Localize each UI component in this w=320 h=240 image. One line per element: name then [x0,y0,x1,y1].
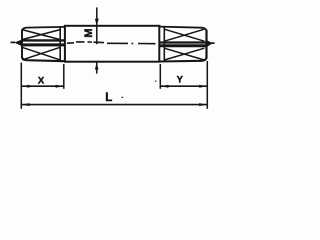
right knurl lower taper line with axis [160,44,206,47]
arrowhead L right [199,103,207,106]
right knurl inner shoulder line [163,27,165,61]
left knurl lower cross flats [22,47,60,60]
arrowhead L left [22,103,30,106]
left knurl upper cross flats [22,30,60,40]
left tip cone solid [14,39,22,46]
centerline dashes left of M [67,42,104,43]
extension line below body right face [159,64,161,89]
arrowhead Y left [161,85,169,88]
extension line left shared by X and L [20,63,22,109]
left knurl bottom edge [22,57,65,62]
extension line below body left face [63,64,65,89]
right tip cone solid [207,40,213,47]
left knurl top edge [22,27,65,31]
dimension L line [21,104,207,106]
right knurl bottom edge [159,57,206,61]
right knurl right face [205,30,207,59]
arrowhead X right [56,85,64,88]
speck above L line [122,97,124,98]
arrowhead M down [95,19,99,27]
svg-text:Y: Y [177,75,184,86]
left knurl lower taper line with axis [22,43,65,46]
right knurl upper cross flats [164,29,204,41]
left knurl upper taper line [22,39,65,41]
svg-text:L: L [105,92,112,104]
dimension M line [96,7,98,44]
arrowhead M up at bottom edge [95,62,99,69]
dimension X line [21,85,64,87]
centerline left dash [11,41,16,43]
svg-text:M: M [83,28,95,37]
dimension Y line [160,85,207,87]
svg-text:X: X [38,75,45,86]
dimension M lower stub [96,62,98,74]
arrowhead Y right [199,85,207,88]
left knurl left face [21,31,23,58]
speck left of Y [155,81,156,82]
arrowhead X left [22,85,30,88]
right knurl lower cross flats [164,48,204,60]
right knurl top edge [159,27,206,31]
left knurl inner shoulder line [59,28,61,61]
extension line right shared by Y and L [206,61,208,109]
right knurl upper taper line [160,41,206,43]
centerline right dash [209,42,215,44]
body rectangle [65,26,159,62]
centerline dashes body middle [107,42,156,44]
